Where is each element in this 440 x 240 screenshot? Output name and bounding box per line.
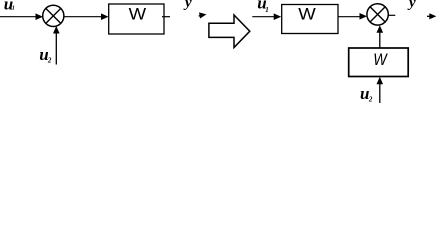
summing junction S2 (circle with X) <box>367 4 388 25</box>
wire summing junction S1 to block W1 <box>64 13 109 20</box>
svg-text:1: 1 <box>12 6 15 12</box>
block W1 <box>109 4 164 34</box>
node u1 label (left diagram) <box>4 0 15 13</box>
svg-text:W: W <box>373 50 388 69</box>
node y label (right diagram) <box>407 0 416 11</box>
wire u2 up into summing junction S1 <box>53 26 60 65</box>
svg-text:W: W <box>298 4 316 23</box>
wire u1 input to block W2 <box>252 13 281 20</box>
big hollow transform arrow <box>209 15 250 48</box>
node u2 label (left diagram) <box>39 45 52 64</box>
svg-text:2: 2 <box>368 95 373 103</box>
node u2 label (right diagram) <box>360 84 373 103</box>
node u1 label (right diagram) <box>257 0 269 14</box>
wire output arrow (right diagram) <box>427 13 436 19</box>
svg-text:2: 2 <box>47 57 52 65</box>
summing junction S1 (circle with X) <box>43 5 64 26</box>
wire block W3 up into summing junction S2 <box>377 25 384 48</box>
wire u2 up into block W3 <box>377 77 384 103</box>
wire output stub of summing junction S2 <box>388 14 395 16</box>
node y label (left diagram) <box>183 0 192 11</box>
svg-text:1: 1 <box>265 6 269 14</box>
wire u1 input to summing junction <box>0 13 43 20</box>
wire output stub of W1 <box>162 16 170 18</box>
block W3 <box>349 48 409 77</box>
svg-text:y: y <box>407 0 416 11</box>
wire block W2 to summing junction S2 <box>338 13 367 20</box>
block W2 <box>282 4 338 33</box>
wire output arrow (left diagram) <box>198 11 207 18</box>
svg-text:W: W <box>129 4 147 23</box>
svg-text:y: y <box>183 0 192 11</box>
